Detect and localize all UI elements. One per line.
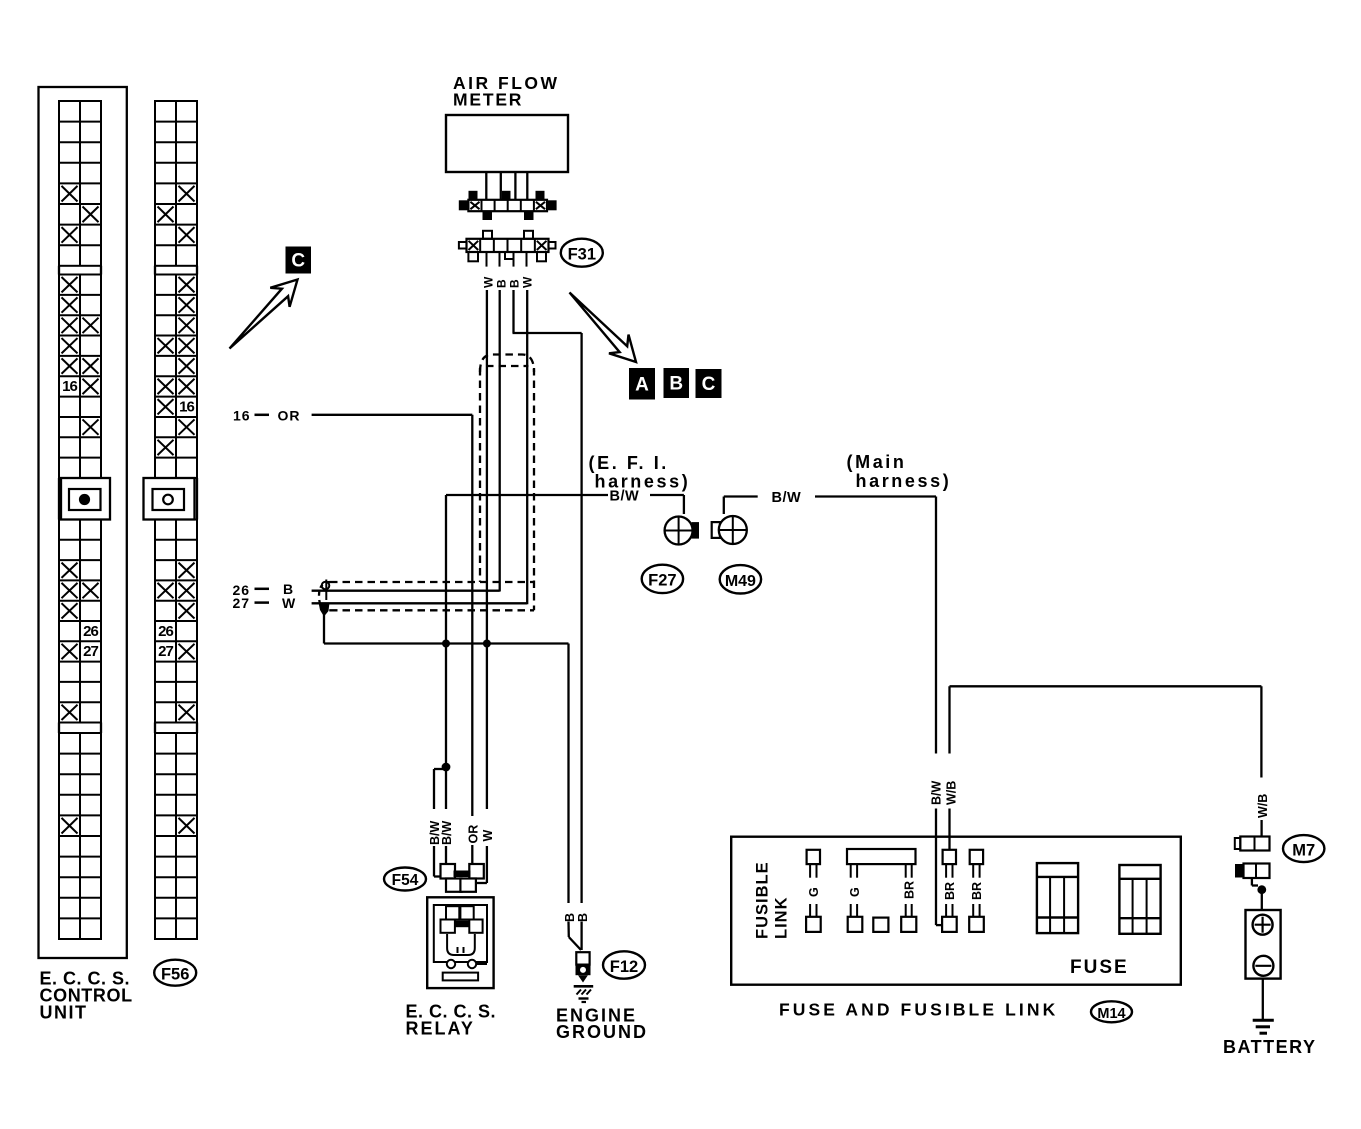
svg-text:F31: F31: [568, 246, 596, 264]
wire OR from pin16 to relay: [312, 415, 473, 864]
svg-text:harness): harness): [595, 472, 691, 492]
label (E.F.I. harness): [589, 453, 691, 492]
svg-text:BATTERY: BATTERY: [1223, 1037, 1317, 1057]
svg-text:FUSE AND FUSIBLE LINK: FUSE AND FUSIBLE LINK: [779, 1000, 1058, 1020]
svg-text:UNIT: UNIT: [40, 1003, 88, 1023]
connector ref oval M7: [1283, 835, 1324, 862]
svg-text:RELAY: RELAY: [406, 1019, 475, 1039]
wire: strip side bridges left: [59, 266, 101, 733]
svg-text:26: 26: [83, 623, 98, 640]
fuse 1: [1037, 863, 1078, 933]
label E.C.C.S. RELAY: [406, 1002, 497, 1039]
wire B pin3 to engine ground: [513, 290, 582, 950]
svg-text:B: B: [495, 279, 509, 288]
view arrow toward C: [230, 280, 298, 349]
svg-text:(E. F. I.: (E. F. I.: [589, 453, 669, 473]
air flow meter box: [446, 115, 568, 172]
fusible link 1 (G): [806, 850, 821, 932]
latch box with solid dot on control unit strip: [61, 478, 110, 520]
wire B pin2 down to 26 line: [499, 290, 501, 592]
svg-text:FUSIBLE: FUSIBLE: [754, 861, 772, 939]
connector ref oval M14: [1091, 1001, 1132, 1022]
svg-text:W: W: [481, 830, 495, 842]
latch box with open circle on F56 strip: [144, 478, 195, 520]
junction dot B/W branch: [434, 763, 450, 877]
dashed harness sheath around wires: [319, 355, 534, 611]
svg-text:GROUND: GROUND: [556, 1022, 648, 1042]
view label A (black box): [629, 368, 655, 400]
wire battery to ground: [1262, 979, 1264, 1019]
svg-text:B/W: B/W: [930, 781, 944, 806]
wire M7 to battery with junction dot: [1252, 878, 1266, 910]
svg-text:W: W: [482, 276, 496, 288]
svg-text:27: 27: [233, 595, 251, 611]
svg-text:27: 27: [158, 643, 173, 660]
outer box of E.C.C.S. control unit: [39, 87, 127, 958]
E.C.C.S. relay box: [427, 897, 493, 988]
rotated labels B/W W/B at fuse box: [930, 781, 959, 806]
wire from shield to engine ground: [324, 612, 581, 950]
svg-text:OR: OR: [278, 408, 301, 424]
connector ref oval F27: [642, 565, 683, 593]
wire B/W to E.F.I. harness connector F27: [446, 495, 684, 864]
connector M7 blocks: [1235, 837, 1270, 879]
fusible link pair 2-3 common bar: [847, 849, 917, 932]
connector ref oval F12: [603, 951, 645, 978]
label 16 - OR: [233, 408, 301, 424]
svg-text:METER: METER: [453, 90, 523, 110]
svg-text:B/W: B/W: [772, 490, 802, 506]
svg-text:W/B: W/B: [1256, 794, 1270, 818]
shield drain marks at harness end: [319, 580, 330, 617]
label 27 - W: [233, 595, 297, 611]
pin wire colour letters W B B W: [482, 276, 535, 288]
wire W pin1 down to relay: [486, 290, 488, 883]
connector ref oval M49: [720, 565, 761, 593]
connector ref oval F56: [154, 960, 196, 986]
view arrow toward A B C: [570, 293, 637, 363]
svg-text:F27: F27: [648, 572, 676, 590]
fusible link 5 (BR): [969, 850, 984, 932]
label FUSE AND FUSIBLE LINK: [779, 1000, 1058, 1020]
connector strip: E.C.C.S. control unit pin rows: [59, 101, 101, 939]
svg-text:harness): harness): [856, 471, 952, 491]
label (Main harness): [847, 452, 952, 491]
svg-text:W/B: W/B: [945, 781, 959, 805]
label B/W (main side): [772, 490, 802, 506]
svg-text:B: B: [576, 913, 590, 922]
wire W pin27: [312, 602, 528, 604]
svg-text:16: 16: [179, 398, 194, 415]
svg-text:M14: M14: [1097, 1006, 1125, 1022]
view label B (black box): [664, 368, 690, 398]
connector strip: F56 connector pin rows: [155, 101, 197, 939]
svg-text:C: C: [702, 374, 716, 395]
svg-text:BR: BR: [903, 881, 917, 899]
svg-text:FUSE: FUSE: [1070, 957, 1129, 978]
engine ground symbol: [574, 986, 594, 1002]
svg-text:26: 26: [158, 623, 173, 640]
svg-text:F54: F54: [392, 872, 419, 889]
svg-text:BR: BR: [970, 882, 984, 900]
label ENGINE GROUND: [556, 1006, 648, 1043]
connector M49 (round, female tab): [712, 516, 747, 544]
rotated label W/B at battery: [1256, 794, 1270, 818]
svg-text:M7: M7: [1292, 841, 1315, 859]
svg-text:W: W: [521, 276, 535, 288]
spare terminal box: [873, 918, 888, 932]
label BATTERY: [1223, 1037, 1317, 1057]
view label C (black box): [286, 247, 312, 274]
rotated wire labels B B at engine ground: [563, 913, 590, 922]
connector (air flow meter side, male): [459, 191, 557, 220]
relay connector terminals F54: [441, 864, 487, 892]
label E.C.C.S. CONTROL UNIT: [40, 969, 133, 1023]
svg-text:C: C: [291, 251, 305, 272]
connector F27 (round, male tab): [665, 517, 699, 545]
label AIR FLOW METER: [453, 73, 560, 110]
wire B pin26: [312, 590, 500, 592]
fuse and fusible link box: [731, 837, 1181, 985]
connector F31 (harness side, female): [459, 231, 556, 267]
svg-text:M49: M49: [725, 573, 756, 590]
svg-text:W: W: [282, 595, 296, 611]
svg-text:A: A: [635, 375, 649, 396]
svg-text:16: 16: [62, 378, 77, 395]
wire B/W from M49 to main harness: [724, 497, 942, 926]
connector ref oval F54: [384, 868, 426, 891]
svg-text:B: B: [508, 279, 522, 288]
svg-text:OR: OR: [466, 825, 480, 844]
label B/W (EFI side): [610, 489, 640, 505]
svg-text:LINK: LINK: [772, 897, 790, 940]
junction dots on ground line: [442, 640, 491, 648]
battery ground symbol: [1253, 1020, 1274, 1033]
battery: [1246, 910, 1281, 979]
svg-text:27: 27: [83, 643, 98, 660]
svg-text:B/W: B/W: [440, 821, 454, 846]
fuse 2: [1119, 865, 1160, 934]
svg-text:(Main: (Main: [847, 452, 907, 472]
svg-text:BR: BR: [943, 882, 957, 900]
label FUSE: [1070, 957, 1129, 978]
engine ground terminal F12: [576, 952, 591, 982]
svg-text:B: B: [563, 913, 577, 922]
svg-text:G: G: [807, 887, 821, 897]
svg-text:F56: F56: [161, 965, 189, 983]
label 26 - B: [233, 581, 294, 598]
svg-text:F12: F12: [610, 958, 638, 976]
wire stubs from air flow meter: [486, 172, 527, 200]
svg-text:B: B: [669, 374, 683, 395]
wire W pin4 down to 27 line: [526, 290, 528, 604]
rotated wire labels B/W B/W OR W at relay: [428, 821, 495, 846]
view label C2 (black box): [696, 369, 722, 398]
connector ref oval F31: [561, 239, 603, 267]
fusible link 4 (BR) with wires: [942, 850, 957, 932]
svg-text:G: G: [848, 887, 862, 897]
wire W/B from fusible link to battery: [950, 686, 1262, 850]
label FUSIBLE LINK (rotated): [754, 861, 791, 939]
svg-text:16: 16: [233, 408, 251, 424]
wire: strip side bridges right: [155, 266, 197, 733]
